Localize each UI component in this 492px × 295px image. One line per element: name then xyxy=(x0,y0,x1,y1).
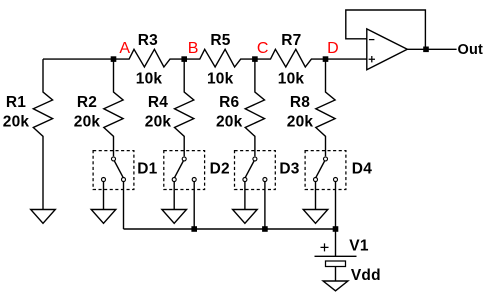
svg-text:10k: 10k xyxy=(207,71,234,88)
svg-text:20k: 20k xyxy=(287,114,314,131)
svg-text:10k: 10k xyxy=(278,71,305,88)
svg-text:A: A xyxy=(119,40,130,57)
svg-text:R5: R5 xyxy=(210,32,230,49)
svg-text:R7: R7 xyxy=(281,32,301,49)
svg-text:20k: 20k xyxy=(216,114,243,131)
svg-text:20k: 20k xyxy=(145,114,172,131)
svg-text:D4: D4 xyxy=(352,161,372,178)
svg-text:D2: D2 xyxy=(210,161,230,178)
svg-text:R4: R4 xyxy=(148,94,168,111)
svg-text:R1: R1 xyxy=(6,94,26,111)
svg-text:R2: R2 xyxy=(77,94,97,111)
svg-text:R3: R3 xyxy=(138,32,158,49)
svg-text:D3: D3 xyxy=(279,161,299,178)
svg-text:Vdd: Vdd xyxy=(351,267,381,284)
svg-text:B: B xyxy=(188,40,199,57)
svg-text:10k: 10k xyxy=(136,71,163,88)
svg-text:D: D xyxy=(327,40,339,57)
svg-text:20k: 20k xyxy=(74,114,101,131)
svg-text:D1: D1 xyxy=(137,161,157,178)
svg-text:R8: R8 xyxy=(290,94,310,111)
svg-text:V1: V1 xyxy=(349,238,369,255)
svg-text:R6: R6 xyxy=(219,94,239,111)
svg-text:C: C xyxy=(257,40,269,57)
svg-text:20k: 20k xyxy=(3,114,30,131)
svg-text:Out: Out xyxy=(458,42,484,58)
